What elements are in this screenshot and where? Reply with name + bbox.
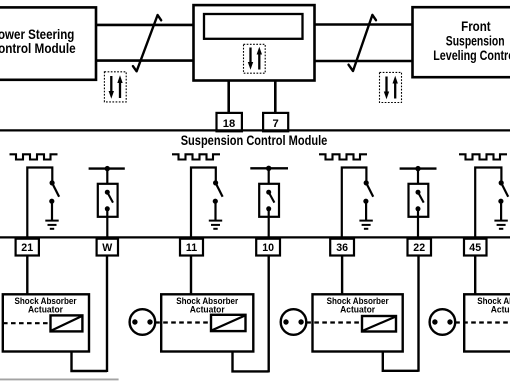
boxed switch S6 xyxy=(409,184,429,217)
pin W xyxy=(97,239,118,256)
wire to ground 1 xyxy=(51,201,53,220)
boxed switch S2 xyxy=(98,184,118,217)
wire switch 2 to pin W xyxy=(106,209,108,238)
actuator element 2 xyxy=(211,315,246,331)
pin 45 xyxy=(464,239,487,256)
wire pin 10 down xyxy=(268,255,270,372)
ground 3 xyxy=(209,221,222,229)
svg-text:7: 7 xyxy=(272,118,278,130)
wire pin 21 to actuator 1 xyxy=(26,255,28,294)
wire circuit 1 xyxy=(27,168,52,238)
PWM waveform symbol circuit 7 xyxy=(459,154,507,159)
PWM waveform symbol circuit 5 xyxy=(319,154,367,159)
wire circuit 7 xyxy=(475,168,501,238)
ground 5 xyxy=(359,221,372,229)
wire actuator 3 return to pin 22 xyxy=(383,351,419,370)
svg-text:22: 22 xyxy=(413,242,425,254)
node on bar 2 xyxy=(105,166,110,171)
actuator element 3 xyxy=(362,316,396,332)
wire: upper left bus wire xyxy=(96,24,194,27)
bidirectional arrows symbol left xyxy=(104,72,126,102)
svg-text:18: 18 xyxy=(223,118,235,130)
svg-text:Suspension: Suspension xyxy=(446,34,505,49)
shock absorber actuator 1 xyxy=(3,294,89,351)
svg-text:21: 21 xyxy=(21,242,33,254)
wire circuit 3 xyxy=(191,168,216,238)
pin 18 xyxy=(217,113,242,131)
node on bar 6 xyxy=(415,166,420,171)
svg-text:Actuator: Actuator xyxy=(28,304,63,314)
svg-text:W: W xyxy=(102,242,112,254)
wire switch 6 to pin 22 xyxy=(417,209,419,238)
wire pin 36 to actuator 3 xyxy=(341,255,343,294)
svg-text:Actuator: Actuator xyxy=(190,304,225,314)
wire bar to switch 2 xyxy=(106,169,108,192)
Power Steering Control Module box xyxy=(0,7,96,79)
dashed link actuator 2 xyxy=(155,321,211,323)
svg-text:Control Module: Control Module xyxy=(0,41,76,56)
ground 1 xyxy=(45,221,58,229)
boxed switch S4 xyxy=(259,184,279,217)
twisted-pair slash left xyxy=(133,15,161,71)
switch S5 xyxy=(363,180,373,204)
wire pin 45 to actuator 4 xyxy=(474,255,476,294)
svg-text:36: 36 xyxy=(336,242,348,254)
svg-text:Actuator: Actuator xyxy=(340,304,375,314)
connector circle 1 xyxy=(130,309,156,335)
wire: lower right bus wire xyxy=(315,60,413,63)
wire circuit 5 xyxy=(342,168,367,238)
Suspension Control Module top boundary xyxy=(0,129,510,131)
PWM waveform symbol circuit 1 xyxy=(10,154,58,159)
wire actuator 2 return to pin 10 xyxy=(233,351,269,371)
supply bar circuit 6 xyxy=(400,167,437,169)
wire: upper right bus wire xyxy=(315,23,413,26)
node on bar 4 xyxy=(266,166,271,171)
pin 10 xyxy=(256,239,280,256)
switch S1 xyxy=(49,180,59,204)
pin 7 xyxy=(263,113,288,131)
svg-text:10: 10 xyxy=(262,242,274,254)
wire to ground 7 xyxy=(500,201,502,220)
wire: to pin 7 xyxy=(274,81,277,114)
svg-text:Front: Front xyxy=(461,19,491,34)
wire to ground 3 xyxy=(214,201,216,220)
bidirectional arrows symbol right xyxy=(380,72,402,102)
svg-text:11: 11 xyxy=(186,242,197,254)
suspension control module (top connector) box U1 xyxy=(194,5,315,80)
twisted-pair slash right xyxy=(349,15,377,71)
wire to ground 5 xyxy=(365,201,367,220)
wire bar to switch 4 xyxy=(268,168,270,192)
actuator element 1 xyxy=(51,315,83,331)
wire bar to switch 6 xyxy=(417,169,419,192)
switch S3 xyxy=(213,180,223,204)
shock absorber actuator 3 xyxy=(313,294,403,351)
shock absorber actuator 2 xyxy=(161,294,253,351)
wire: lower left bus wire xyxy=(96,59,194,62)
wire pin 22 down xyxy=(417,255,419,371)
wire pin W down xyxy=(106,255,108,372)
svg-text:Leveling Control: Leveling Control xyxy=(433,48,510,63)
supply bar circuit 4 xyxy=(250,167,288,169)
svg-text:Suspension Control Module: Suspension Control Module xyxy=(181,133,328,148)
svg-text:Actuator: Actuator xyxy=(491,304,510,314)
pin 21 xyxy=(16,239,39,256)
PWM waveform symbol circuit 3 xyxy=(172,154,220,159)
pin 11 xyxy=(180,239,203,256)
pin 22 xyxy=(408,239,432,256)
Suspension Control Module bottom boundary xyxy=(0,236,510,238)
Front Suspension Leveling Control box xyxy=(413,7,510,77)
ground 7 xyxy=(494,221,507,229)
svg-text:Power Steering: Power Steering xyxy=(0,27,74,42)
svg-text:45: 45 xyxy=(469,242,481,254)
wire: to pin 18 xyxy=(227,81,230,114)
wire pin 11 to actuator 2 xyxy=(190,255,192,294)
connector circle 3 xyxy=(430,309,456,335)
connector circle 2 xyxy=(281,309,307,335)
switch S7 xyxy=(498,180,508,204)
wire switch 4 to pin 10 xyxy=(268,209,270,238)
supply bar circuit 2 xyxy=(89,167,125,169)
dashed link actuator 3 xyxy=(306,321,362,323)
wire actuator 1 return to pin W xyxy=(72,351,108,371)
shock absorber actuator 4 xyxy=(464,294,510,351)
bidirectional arrows symbol center xyxy=(244,44,266,73)
pin 36 xyxy=(330,239,354,256)
dashed link actuator 1 xyxy=(3,322,51,324)
partial box edge bottom left xyxy=(0,378,119,380)
dashed link actuator 4 xyxy=(455,321,510,323)
